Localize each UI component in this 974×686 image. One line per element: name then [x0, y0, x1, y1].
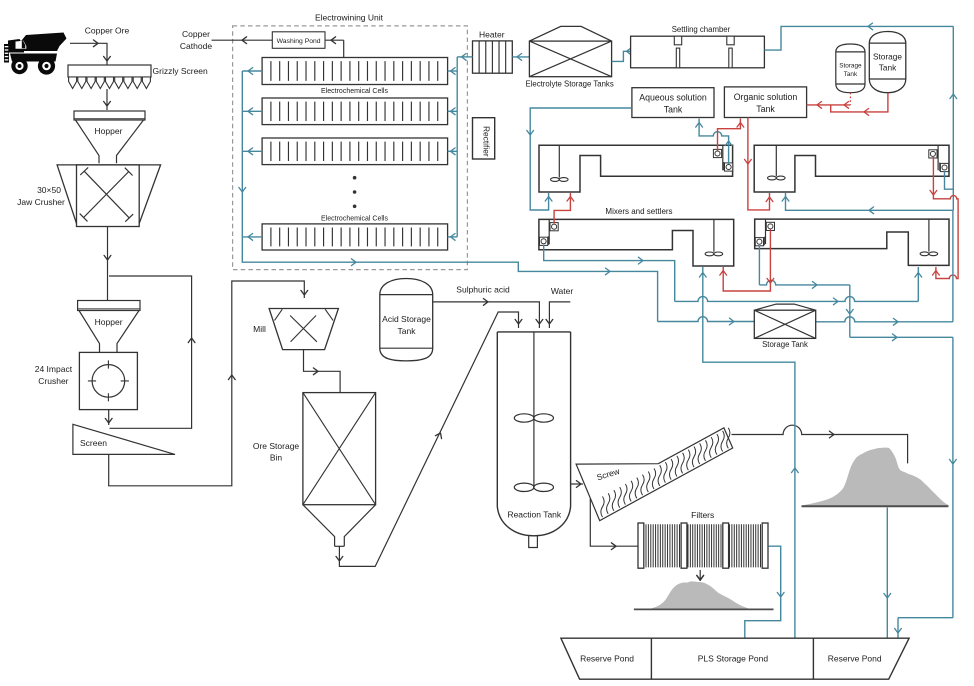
svg-text:Jaw Crusher: Jaw Crusher: [17, 197, 65, 207]
wire: screw bottom to filters: [590, 499, 637, 550]
storage tank (large capsule): [869, 32, 906, 93]
svg-text:Settling chamber: Settling chamber: [672, 25, 731, 34]
svg-text:Aqueous solution: Aqueous solution: [639, 93, 707, 103]
washing pond: [272, 32, 325, 49]
heap leach pile (large): [802, 448, 950, 507]
rectifier: [473, 118, 495, 159]
jaw crusher: [57, 165, 161, 227]
wire: settler 1 pump to aqueous tank (teal): [696, 119, 732, 164]
ore storage bin: [303, 393, 376, 547]
svg-text:Hopper: Hopper: [95, 126, 123, 136]
svg-text:Screen: Screen: [80, 438, 107, 448]
wire: screen underflow to mill: [109, 281, 308, 486]
wire: large storage tank to organic tank (red): [831, 93, 888, 116]
svg-text:Acid Storage: Acid Storage: [382, 314, 431, 324]
wire: right supply to mixer 2 (teal): [782, 193, 953, 214]
ponds (reserve / PLS storage / reserve): [561, 638, 909, 679]
wire: unit3 pump1 to mixer 1 (red): [554, 193, 574, 223]
svg-text:Copper Ore: Copper Ore: [85, 26, 130, 36]
electrochemical cell bank 2: [262, 98, 448, 125]
organic solution tank: [724, 87, 806, 118]
svg-text:Cathode: Cathode: [180, 41, 212, 51]
wire+conveyor: bin to reaction tank: [336, 312, 522, 566]
filters: [638, 523, 768, 568]
electrochemical cell bank 3: [262, 138, 448, 165]
teal manifold right of cells (from heater): [448, 57, 458, 240]
mill: [269, 309, 338, 350]
svg-text:Tank: Tank: [664, 105, 683, 115]
wire: truck to grizzly screen: [70, 40, 110, 65]
svg-text:Mill: Mill: [253, 324, 266, 334]
electrochemical cell bank 4: [262, 224, 448, 250]
wire: grizzly to hopper: [104, 89, 111, 110]
svg-text:Rectifier: Rectifier: [482, 126, 492, 157]
svg-text:Tank: Tank: [844, 71, 858, 78]
svg-text:24 Impact: 24 Impact: [35, 364, 73, 374]
wire: settling chamber to electrolyte tanks (teal): [612, 48, 632, 62]
svg-text:Filters: Filters: [691, 510, 714, 520]
svg-text:Electrochemical Cells: Electrochemical Cells: [321, 88, 388, 95]
svg-text:Reserve Pond: Reserve Pond: [580, 653, 634, 663]
teal manifold left of cells: [239, 68, 658, 322]
svg-text:Tank: Tank: [398, 326, 417, 336]
storage tank (middle): [754, 304, 815, 338]
wire: spent electrolyte to storage tank (teal, into tank): [658, 317, 755, 325]
acid storage tank: [380, 279, 433, 361]
wire: water to reaction tank: [546, 302, 570, 328]
svg-text:Washing Pond: Washing Pond: [277, 38, 321, 45]
svg-text:PLS Storage Pond: PLS Storage Pond: [698, 653, 769, 663]
heater: [473, 41, 513, 73]
aqueous solution tank: [632, 88, 714, 118]
wire: cell 1 to washing pond: [325, 37, 344, 58]
wire: settler 4 pump to pond return (teal): [759, 245, 956, 637]
svg-text:Tank: Tank: [879, 63, 897, 73]
wire: heap drain to PLS pond (teal): [884, 508, 891, 638]
electrochemical cell bank 1: [262, 58, 448, 85]
wire: impact crusher to screen: [105, 410, 112, 425]
wire: right return to settling chamber (teal, top): [764, 23, 953, 50]
reaction tank: [497, 332, 570, 548]
hopper (upper): [74, 111, 145, 163]
grizzly screen: [68, 65, 151, 89]
wire: heater to cells (teal): [457, 54, 472, 61]
wire: reaction tank to screw: [571, 481, 583, 488]
hopper (lower): [78, 301, 140, 353]
wire: small storage tank to organic tank (red, dotted): [807, 93, 851, 109]
wire: settler 2 pump up to chamber return (teal): [945, 26, 957, 210]
svg-text:Ore Storage: Ore Storage: [253, 441, 300, 451]
svg-text:Grizzly Screen: Grizzly Screen: [153, 66, 209, 76]
mixer-settler unit 3 (bottom left): [539, 219, 734, 266]
wire: acid to reaction tank: [433, 299, 543, 329]
waste heap (small): [634, 581, 774, 609]
svg-text:Electrolyte Storage Tanks: Electrolyte Storage Tanks: [525, 80, 613, 89]
svg-text:Hopper: Hopper: [95, 317, 123, 327]
wire: unit3 pump2 to mixer 4 (teal): [544, 245, 922, 305]
mixer-settler unit 4 (bottom right): [755, 219, 949, 265]
electrowinning unit dashed border: [233, 26, 468, 270]
dots (more cells): [353, 176, 357, 208]
impact crusher: [79, 352, 137, 409]
svg-text:Storage Tank: Storage Tank: [762, 340, 808, 349]
svg-text:Bin: Bin: [270, 453, 283, 463]
svg-text:Reserve Pond: Reserve Pond: [828, 653, 882, 663]
wire: filters to waste heap: [697, 570, 704, 581]
svg-text:Storage: Storage: [873, 52, 902, 62]
wire: organic tank to mixer 2 (red): [745, 118, 773, 210]
wire: jaw crusher to hopper 2: [104, 227, 111, 301]
wire: PLS pond to mixer 3 (teal): [699, 267, 798, 638]
wire: washing pond to copper cathode: [212, 37, 273, 44]
wire: mill to ore storage bin: [304, 350, 341, 393]
truck (haul truck icon): [4, 33, 67, 75]
svg-text:Water: Water: [551, 286, 574, 296]
svg-text:Copper: Copper: [182, 29, 210, 39]
wire: unit4 pump1 to mixer 3 (red): [720, 230, 774, 292]
screen (wedge): [73, 424, 175, 454]
mixer-settler unit 2 (top right): [754, 145, 949, 192]
wire: screw to heap (with hop): [732, 425, 908, 463]
svg-text:Sulphuric acid: Sulphuric acid: [456, 285, 510, 295]
svg-text:30×50: 30×50: [37, 185, 61, 195]
svg-text:Organic solution: Organic solution: [734, 92, 798, 102]
storage tank (small capsule): [836, 44, 865, 93]
svg-text:Mixers and settlers: Mixers and settlers: [605, 207, 672, 216]
svg-text:Electrowining Unit: Electrowining Unit: [315, 13, 384, 23]
mixer-settler unit 1 (top left): [539, 145, 733, 192]
svg-text:Storage: Storage: [839, 63, 862, 70]
screw conveyor: [576, 428, 733, 521]
svg-text:Heater: Heater: [479, 30, 505, 40]
svg-text:Tank: Tank: [756, 104, 775, 114]
wire: settler 1 pump to organic tank (red): [718, 119, 744, 151]
svg-text:Electrochemical Cells: Electrochemical Cells: [321, 216, 388, 223]
electrolyte storage tanks: [529, 26, 611, 76]
wire: aqueous tank to mixer 1 (teal): [527, 108, 632, 210]
recycle wire: screen oversize to hopper 2: [109, 276, 195, 428]
wire: storage tank (mid) return up (teal): [816, 210, 953, 325]
wire: settler 2 pump to mixer 4 (red): [930, 157, 958, 279]
wire: electrolyte tanks to heater (teal): [512, 54, 529, 61]
svg-text:Crusher: Crusher: [38, 376, 68, 386]
svg-text:Reaction Tank: Reaction Tank: [507, 510, 561, 520]
settling chamber: [631, 36, 765, 68]
wire: filters output to PLS pond (teal): [745, 546, 784, 637]
